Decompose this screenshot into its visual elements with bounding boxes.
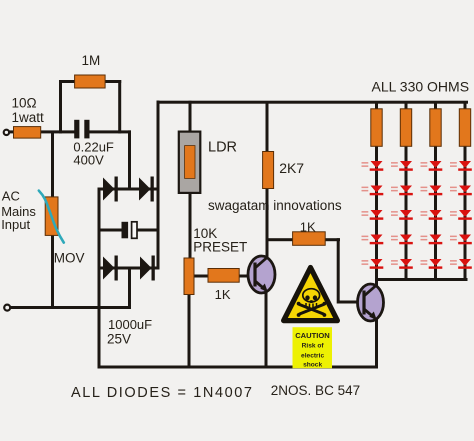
- LED 5: [362, 259, 384, 269]
- resistor 1K coupling: [293, 232, 326, 246]
- wire LED string 4 top stub: [464, 102, 467, 110]
- svg-text:1K: 1K: [215, 287, 231, 302]
- LED 18: [450, 210, 472, 220]
- wire LED string 3 body: [434, 146, 437, 281]
- svg-text:400V: 400V: [73, 153, 104, 168]
- LED 11: [421, 161, 443, 171]
- warning triangle skull and crossbones: [284, 268, 338, 321]
- wire bridge right DC riser: [157, 101, 160, 270]
- svg-text:ALL DIODES = 1N4007: ALL DIODES = 1N4007: [71, 385, 254, 401]
- wire 1M loop top: [59, 80, 121, 83]
- wire LED string 3 top stub: [434, 102, 437, 110]
- resistor 330 ohm string 4: [459, 109, 470, 147]
- varistor MOV: [45, 197, 58, 236]
- diode D1 1N4007: [103, 177, 118, 202]
- wire bridge bottom diode row: [99, 267, 158, 270]
- wire bridge top diode row: [99, 188, 158, 191]
- wire preset to ground link: [188, 294, 191, 368]
- LED 2: [362, 186, 384, 196]
- svg-text:2NOS. BC 547: 2NOS. BC 547: [271, 383, 360, 398]
- LDR body: [179, 132, 201, 193]
- LED 9: [391, 235, 413, 245]
- transistor Q2 BC547: [358, 284, 384, 321]
- LED 12: [421, 186, 443, 196]
- LED 6: [391, 161, 413, 171]
- wire 1M loop left: [59, 80, 62, 133]
- wire AC neutral line: [10, 306, 131, 309]
- wire LED string 2 body: [405, 146, 408, 281]
- svg-text:shock: shock: [303, 362, 322, 369]
- LED 1: [362, 161, 384, 171]
- wire LED string 1 body: [375, 146, 378, 281]
- svg-text:Input: Input: [1, 217, 30, 232]
- LED 15: [421, 259, 443, 269]
- wire LED string 4 body: [464, 146, 467, 281]
- wire bridge bottom AC riser: [128, 268, 131, 309]
- wire main AC line cap to bridge riser: [89, 130, 131, 133]
- svg-text:1000uF: 1000uF: [108, 317, 152, 332]
- LED 17: [450, 186, 472, 196]
- wire main AC line from terminal to cap: [8, 130, 75, 133]
- caution label risk of electric shock: [293, 327, 333, 368]
- wire Q2 collector stub: [375, 280, 378, 288]
- wire Q2 emitter to ground: [375, 319, 378, 368]
- svg-text:CAUTION: CAUTION: [295, 331, 330, 340]
- LED 7: [391, 186, 413, 196]
- wire bridge top AC riser: [128, 130, 131, 190]
- LED 19: [450, 235, 472, 245]
- resistor 10 ohm 1 watt: [14, 127, 41, 139]
- svg-text:ALL 330 OHMS: ALL 330 OHMS: [372, 78, 470, 94]
- svg-text:1M: 1M: [82, 53, 101, 68]
- capacitor 1000uF 25V negative plate: [122, 222, 129, 239]
- LED 20: [450, 259, 472, 269]
- resistor 330 ohm string 2: [400, 109, 411, 147]
- wire collector tap to 1K top: [267, 238, 294, 241]
- wire preset wiper to 1K: [194, 275, 210, 278]
- svg-text:AC: AC: [2, 189, 20, 204]
- transistor Q1 BC547: [248, 256, 275, 293]
- wire bridge left rail: [98, 188, 101, 369]
- svg-text:swagatam innovations: swagatam innovations: [208, 198, 342, 213]
- wire Q1 emitter to ground: [265, 291, 268, 368]
- diode D4 1N4007: [140, 256, 155, 281]
- svg-text:MOV: MOV: [54, 251, 85, 266]
- LDR inner element: [185, 146, 195, 179]
- wire LDR riser: [189, 101, 192, 133]
- svg-text:25V: 25V: [107, 332, 131, 347]
- LED 4: [362, 235, 384, 245]
- wire LED string 1 top stub: [375, 102, 378, 110]
- svg-text:1watt: 1watt: [12, 110, 45, 125]
- svg-text:electric: electric: [301, 353, 324, 360]
- LED 10: [391, 259, 413, 269]
- svg-text:PRESET: PRESET: [193, 239, 247, 254]
- preset 10K: [184, 258, 194, 295]
- wire ground rail: [98, 366, 379, 369]
- resistor 330 ohm string 3: [430, 109, 441, 147]
- LED 16: [450, 161, 472, 171]
- wire Q2 base lead: [337, 301, 359, 304]
- wire Q2 base drop: [337, 238, 340, 303]
- LED 8: [391, 210, 413, 220]
- resistor 1K base: [208, 269, 239, 283]
- wire LED string 2 top stub: [405, 102, 408, 110]
- wire 2K7 column top: [266, 102, 269, 153]
- resistor 2K7: [263, 152, 274, 189]
- wire 2K7 to Q1 collector: [266, 188, 269, 258]
- diode D3 1N4007: [103, 256, 118, 281]
- svg-text:1K: 1K: [300, 220, 316, 235]
- terminal AC neutral input: [4, 305, 10, 311]
- wire bridge mid cap row left: [99, 229, 122, 232]
- capacitor 1000uF 25V positive plate: [132, 222, 137, 239]
- LED 14: [421, 235, 443, 245]
- wire LED cathode rail: [375, 278, 468, 281]
- wire LDR to preset link: [189, 192, 192, 261]
- capacitor 0.22uF 400V plate 2: [84, 120, 89, 139]
- svg-text:LDR: LDR: [208, 139, 237, 155]
- wire MOV branch: [51, 131, 54, 309]
- wire 1K top to corner: [324, 238, 340, 241]
- terminal AC live input: [4, 130, 9, 135]
- wire 1K to Q1 base: [238, 275, 256, 278]
- wire top positive rail: [157, 101, 469, 104]
- LED 13: [421, 210, 443, 220]
- diode D2 1N4007: [139, 177, 154, 202]
- wire 1M loop right: [118, 80, 121, 133]
- varistor diagonal stroke: [39, 191, 64, 243]
- resistor 330 ohm string 1: [371, 109, 382, 147]
- LED 3: [362, 210, 384, 220]
- wire bridge mid cap row right: [137, 229, 158, 232]
- svg-text:Risk of: Risk of: [302, 343, 325, 350]
- capacitor 0.22uF 400V plate 1: [74, 120, 79, 139]
- resistor 1M: [75, 75, 106, 88]
- svg-text:10Ω: 10Ω: [12, 96, 37, 111]
- svg-text:2K7: 2K7: [279, 160, 304, 176]
